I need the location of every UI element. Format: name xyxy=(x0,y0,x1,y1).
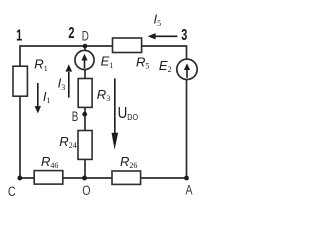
svg-text:B: B xyxy=(72,108,79,124)
svg-text:O: O xyxy=(82,182,91,198)
svg-text:A: A xyxy=(185,182,193,198)
svg-text:C: C xyxy=(8,184,16,200)
svg-text:2: 2 xyxy=(68,24,74,42)
svg-text:3: 3 xyxy=(181,26,187,44)
svg-text:D: D xyxy=(82,28,89,44)
svg-text:1: 1 xyxy=(16,27,22,45)
